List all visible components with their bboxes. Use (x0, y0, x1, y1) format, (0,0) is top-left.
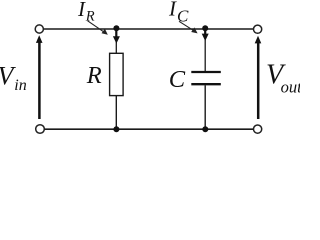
current arrow into C (down) (202, 29, 209, 41)
left branch current arrow (up) (36, 35, 43, 119)
svg-text:C: C (177, 7, 189, 26)
label I_R (77, 0, 95, 24)
current arrow into R (down) (113, 29, 120, 44)
junction dot bottom C (202, 126, 208, 132)
svg-text:C: C (169, 66, 186, 93)
terminal bottom-left (36, 125, 45, 134)
junction dot top C (202, 25, 208, 31)
svg-text:out: out (281, 78, 300, 97)
right branch current arrow (up) (255, 36, 262, 119)
pointer arrow from label I_R (88, 21, 108, 35)
svg-text:R: R (86, 62, 102, 89)
wire C branch bottom (204, 85, 206, 129)
label I_C (168, 0, 189, 26)
wire R branch top (115, 29, 117, 54)
wire R branch bottom (115, 96, 117, 130)
capacitor C plates (191, 72, 221, 84)
terminal bottom-right (254, 125, 262, 133)
svg-text:I: I (168, 0, 177, 20)
wire bottom horizontal (44, 128, 254, 130)
terminal top-right (254, 25, 262, 33)
junction dot top R (113, 25, 119, 31)
wire top horizontal (43, 28, 254, 30)
svg-text:R: R (85, 8, 95, 24)
label V_out (266, 60, 302, 97)
wire C branch top (204, 29, 206, 72)
svg-text:I: I (77, 0, 86, 21)
resistor R (110, 53, 124, 95)
junction dot bottom R (113, 126, 119, 132)
label V_in (0, 61, 27, 94)
svg-text:in: in (14, 77, 26, 94)
pointer arrow from label I_C (179, 21, 198, 33)
terminal top-left (35, 25, 43, 33)
